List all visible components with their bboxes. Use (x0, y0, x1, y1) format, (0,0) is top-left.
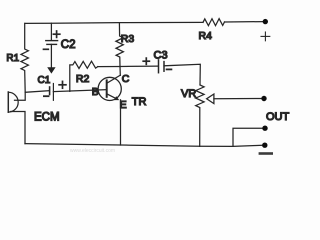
wire ECM lower lead (11, 112, 25, 144)
wire ECM upper lead (15, 92, 26, 100)
microphone ECM capsule (8, 92, 18, 112)
label C1 plus sign (59, 81, 66, 88)
ground bar bottom right (259, 152, 273, 155)
potentiometer VR (196, 85, 204, 146)
label C3 minus sign (167, 68, 172, 70)
label C3 plus sign (143, 58, 149, 64)
wire OUT return branch (233, 128, 262, 146)
node bottom rail terminal dot (262, 143, 267, 148)
resistor R3 (116, 23, 124, 67)
svg-text:ECM: ECM (34, 111, 60, 123)
capacitor C1 (50, 84, 54, 101)
label C2 minus sign (44, 48, 49, 50)
svg-text:R3: R3 (121, 33, 135, 45)
svg-text:C1: C1 (38, 75, 51, 86)
transistor TR (98, 75, 121, 100)
capacitor C3 (159, 60, 165, 73)
svg-text:C2: C2 (61, 39, 76, 51)
wire top supply rail left (R1 top to R4 left) (25, 22, 203, 23)
resistor R4 (203, 19, 225, 26)
svg-text:www.eleccircuit.com: www.eleccircuit.com (70, 148, 115, 154)
ground arrow below C2 (47, 44, 55, 73)
label supply + sign (261, 32, 270, 41)
svg-text:B: B (92, 86, 99, 98)
label C1 minus sign (44, 95, 49, 97)
wire C1 to transistor base (53, 90, 106, 92)
wire collector node down to transistor (119, 67, 121, 76)
node supply + terminal dot (263, 19, 268, 24)
wire collector node to C3 (120, 65, 158, 67)
node OUT return upper dot (262, 126, 267, 131)
svg-text:TR: TR (132, 96, 147, 108)
capacitor C2 (46, 23, 58, 44)
wire bottom rail (25, 144, 262, 147)
svg-text:C: C (122, 73, 130, 85)
wire R1/ECM node to C1 (25, 91, 49, 93)
label C2 plus sign (53, 31, 59, 37)
svg-text:R2: R2 (76, 73, 90, 85)
svg-text:VR: VR (181, 88, 196, 100)
wire top rail right (R4 to supply + terminal) (225, 21, 263, 23)
wire C3 to VR top (164, 64, 200, 85)
wire emitter to bottom rail (120, 100, 122, 145)
svg-text:R4: R4 (199, 30, 213, 42)
potentiometer VR wiper arrow (207, 94, 214, 104)
svg-text:C3: C3 (154, 50, 168, 62)
resistor R1 (21, 23, 28, 92)
svg-text:R1: R1 (6, 53, 19, 64)
resistor R2 (70, 61, 98, 91)
wire VR wiper to OUT terminal (214, 98, 262, 100)
svg-text:OUT: OUT (266, 111, 290, 123)
node OUT upper terminal dot (261, 96, 266, 101)
wire R2 to collector node (98, 66, 120, 68)
